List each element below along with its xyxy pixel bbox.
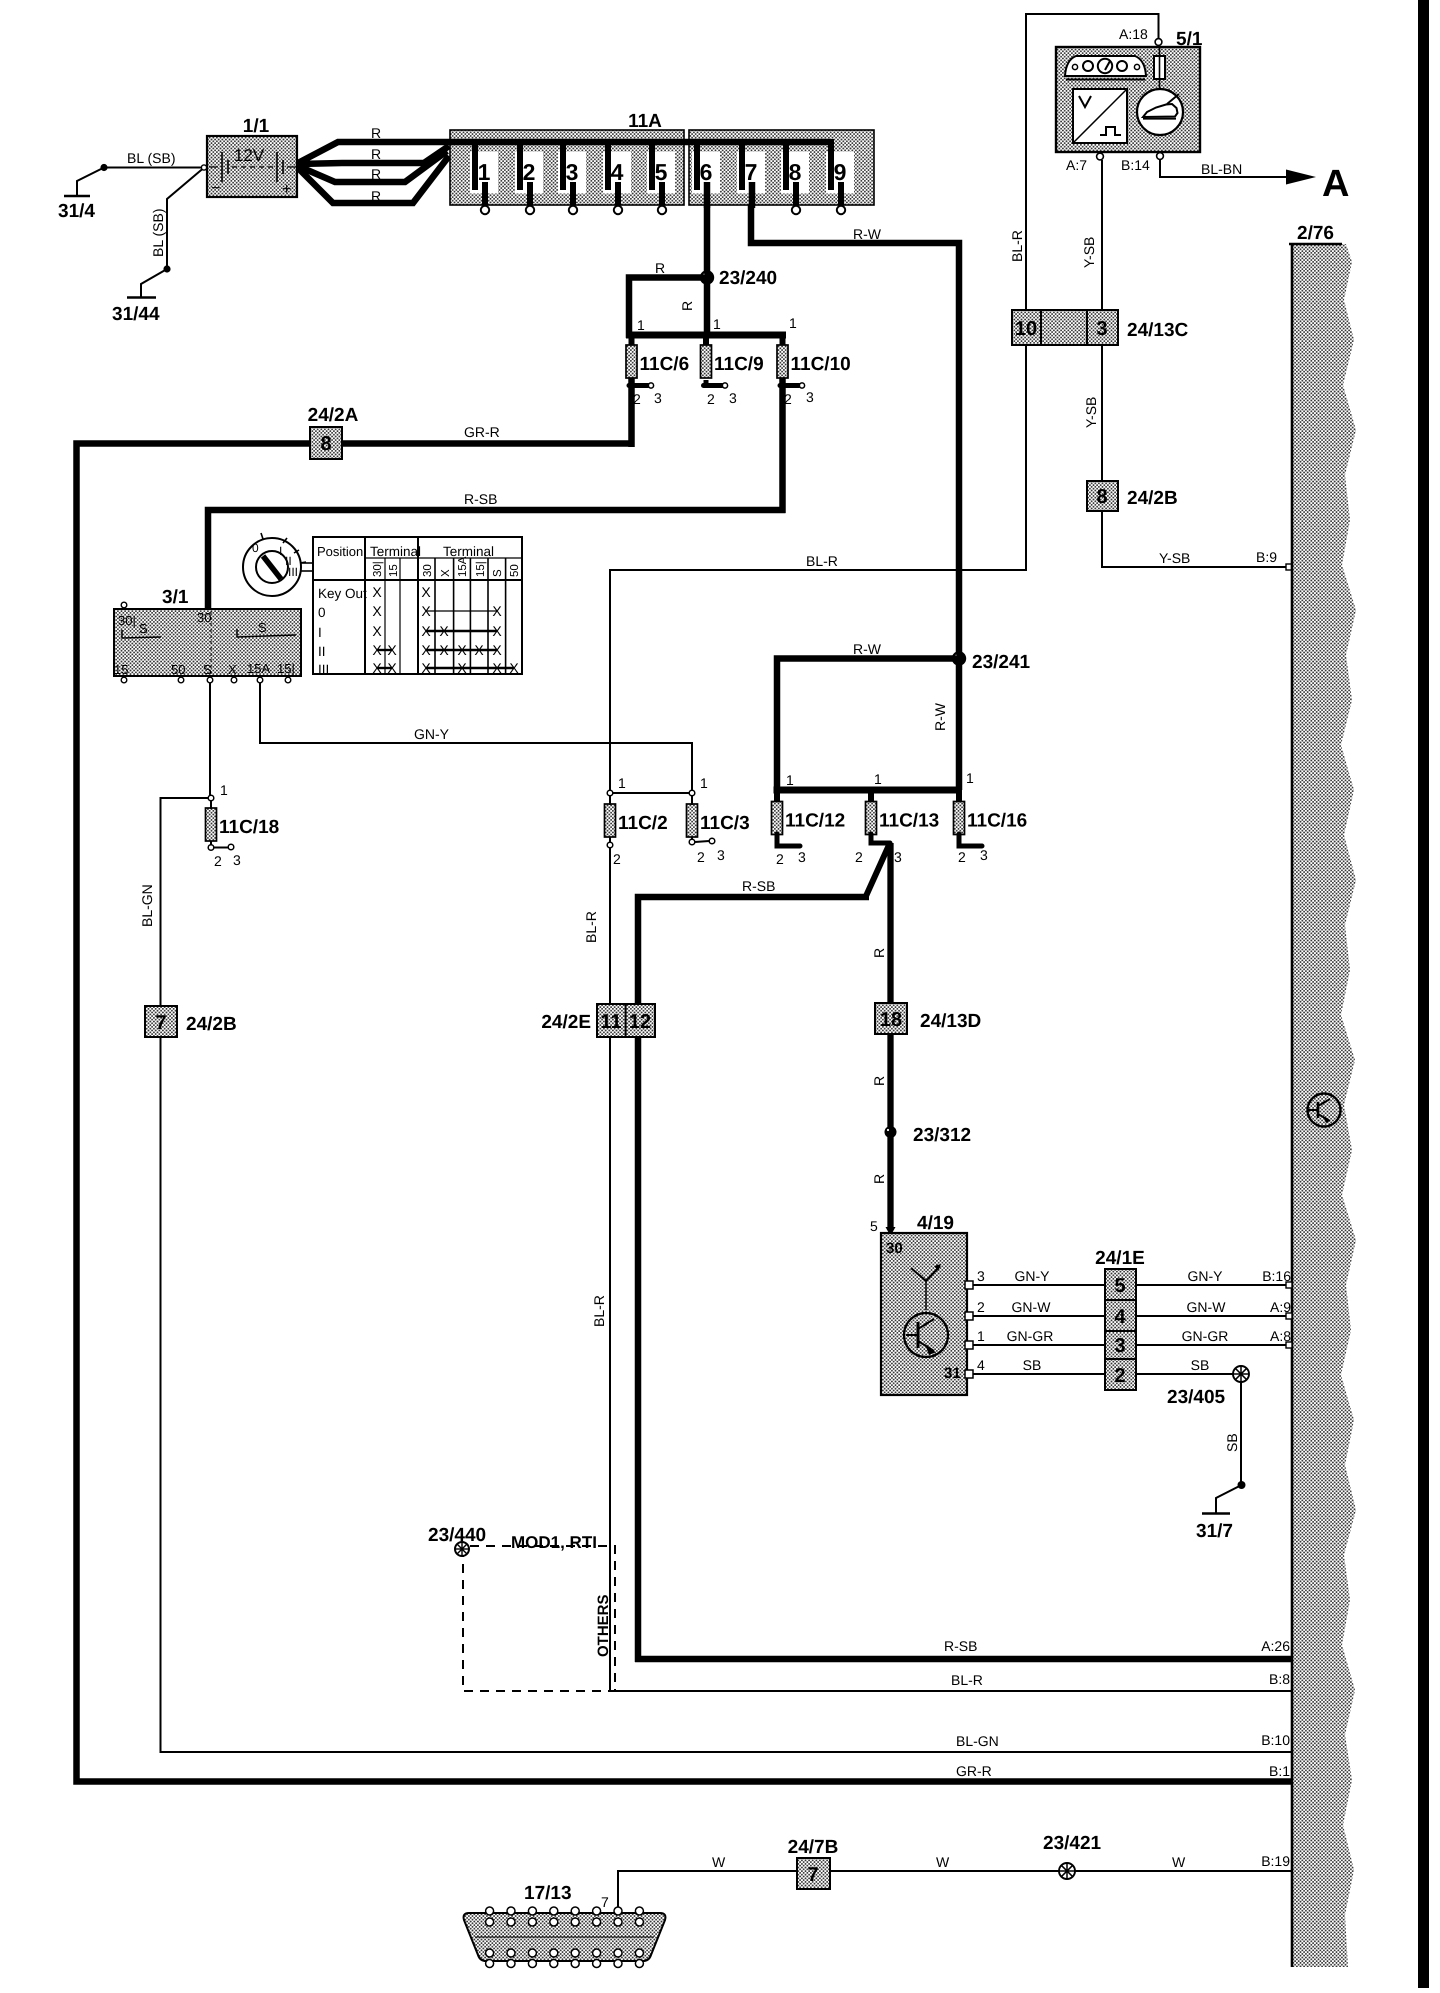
svg-text:A:26: A:26 <box>1261 1638 1290 1654</box>
wire Y-SB from 5/1 A:7 to 24/13C pin 3 <box>1081 160 1102 310</box>
svg-text:X: X <box>474 642 484 658</box>
wire W from 17/13 pin 7 through 24/7B and 23/421 to 2/76 B:19 <box>618 1853 1292 1908</box>
svg-text:3: 3 <box>717 847 725 863</box>
svg-text:X: X <box>492 642 502 658</box>
svg-text:18: 18 <box>880 1009 902 1031</box>
svg-text:2: 2 <box>958 849 966 865</box>
svg-text:31: 31 <box>944 1365 961 1382</box>
svg-text:0: 0 <box>318 605 326 620</box>
connector 24/2E (11 12) <box>541 1004 655 1037</box>
svg-text:3: 3 <box>729 390 737 406</box>
svg-text:11C/16: 11C/16 <box>967 811 1027 832</box>
svg-text:24/13D: 24/13D <box>920 1011 981 1032</box>
battery 1/1 <box>201 116 297 198</box>
svg-text:1: 1 <box>220 782 228 798</box>
svg-text:9: 9 <box>834 159 847 185</box>
svg-text:GN-Y: GN-Y <box>1188 1268 1224 1284</box>
connector 11C/16 <box>954 802 1028 866</box>
svg-text:15A: 15A <box>247 661 270 676</box>
svg-text:R-SB: R-SB <box>742 878 775 894</box>
svg-text:3: 3 <box>980 847 988 863</box>
svg-text:3: 3 <box>233 852 241 868</box>
svg-text:W: W <box>1172 1854 1186 1870</box>
svg-text:1: 1 <box>700 775 708 791</box>
svg-text:1: 1 <box>618 775 626 791</box>
connector 17/13 <box>464 1883 666 1968</box>
wire BL (SB) battery to ground 31/44 <box>141 169 203 298</box>
svg-text:23/440: 23/440 <box>428 1525 486 1546</box>
svg-text:A: A <box>1322 163 1349 205</box>
svg-text:12V: 12V <box>234 146 265 165</box>
svg-text:4: 4 <box>1114 1306 1126 1328</box>
svg-text:1: 1 <box>713 316 721 332</box>
svg-text:R: R <box>871 1076 887 1086</box>
svg-text:5: 5 <box>870 1218 878 1234</box>
svg-text:11C/6: 11C/6 <box>640 354 690 375</box>
svg-text:1: 1 <box>874 771 882 787</box>
connector 24/2B (7) <box>145 1006 237 1037</box>
svg-text:11C/9: 11C/9 <box>714 354 764 375</box>
fuse 5 (11A) <box>647 139 675 214</box>
svg-text:50: 50 <box>509 564 521 577</box>
connector 11C/2 <box>605 775 668 867</box>
wire R-W from 23/241 down to 11C/16 pin 1 <box>932 662 959 790</box>
splice 23/421 <box>1043 1833 1102 1879</box>
svg-text:11C/18: 11C/18 <box>219 817 279 838</box>
svg-text:X: X <box>372 642 382 658</box>
svg-text:GN-GR: GN-GR <box>1182 1328 1229 1344</box>
ground 31/4 <box>58 196 95 222</box>
control module 4/19 <box>881 1213 973 1395</box>
svg-text:Position: Position <box>317 544 363 559</box>
svg-text:30: 30 <box>422 564 434 577</box>
svg-text:2: 2 <box>633 391 641 407</box>
svg-text:23/312: 23/312 <box>913 1125 971 1146</box>
svg-text:S: S <box>139 621 148 636</box>
svg-text:Key Out: Key Out <box>318 586 367 601</box>
svg-text:1: 1 <box>966 770 974 786</box>
svg-text:S: S <box>258 620 267 635</box>
svg-text:3: 3 <box>654 390 662 406</box>
svg-text:B:9: B:9 <box>1256 549 1277 565</box>
svg-text:X: X <box>421 603 431 619</box>
wire R from 23/240 to 11C/6 pin 1 <box>629 260 710 338</box>
svg-text:B:8: B:8 <box>1269 1671 1290 1687</box>
svg-text:30|: 30| <box>118 613 136 628</box>
splice 23/241 <box>952 651 1031 673</box>
svg-text:X: X <box>372 660 382 676</box>
wire Y-SB from 24/13C to 24/2B <box>1083 345 1102 481</box>
component 5/1 trip computer <box>1056 26 1203 173</box>
svg-text:BL-GN: BL-GN <box>139 884 155 927</box>
svg-text:1: 1 <box>478 159 491 185</box>
svg-text:2/76: 2/76 <box>1297 223 1334 244</box>
svg-text:8: 8 <box>789 159 802 185</box>
svg-text:X: X <box>372 623 382 639</box>
ignition switch 3/1 <box>114 587 301 683</box>
svg-text:11C/10: 11C/10 <box>791 354 851 375</box>
svg-text:11C/12: 11C/12 <box>785 811 845 832</box>
svg-text:GN-Y: GN-Y <box>414 726 450 742</box>
wire Y-SB from 24/2B to 2/76 B:9 <box>1102 511 1292 570</box>
svg-text:1/1: 1/1 <box>243 116 270 137</box>
svg-text:I: I <box>318 625 322 640</box>
svg-text:8: 8 <box>1096 486 1107 508</box>
fuse box 11A <box>447 111 874 205</box>
svg-text:B:14: B:14 <box>1121 157 1150 173</box>
svg-text:BL (SB): BL (SB) <box>127 150 176 166</box>
wire BL-GN from 11C/18 pin 1 through 24/2B pin 7 to 2/76 B:10 <box>139 798 1292 1752</box>
ground 31/7 <box>1196 1514 1233 1543</box>
svg-text:MOD1, RTI: MOD1, RTI <box>511 1533 597 1552</box>
svg-text:GN-W: GN-W <box>1187 1299 1227 1315</box>
svg-text:Terminal: Terminal <box>370 544 421 559</box>
svg-text:W: W <box>712 1854 726 1870</box>
connector 11C/9 <box>701 345 764 407</box>
svg-text:A:18: A:18 <box>1119 26 1148 42</box>
svg-text:−: − <box>211 180 220 197</box>
svg-text:R-SB: R-SB <box>464 491 497 507</box>
svg-text:Y-SB: Y-SB <box>1081 237 1097 268</box>
symbol (transistor) on 2/76 bar <box>1308 1094 1341 1127</box>
svg-text:GN-GR: GN-GR <box>1007 1328 1054 1344</box>
svg-text:24/2A: 24/2A <box>308 405 359 426</box>
svg-text:X: X <box>439 623 449 639</box>
svg-text:A:7: A:7 <box>1066 157 1087 173</box>
svg-text:3: 3 <box>806 389 814 405</box>
fuse 2 (11A) <box>515 139 543 214</box>
fuse 8 (11A) <box>781 139 809 214</box>
svg-text:30: 30 <box>197 610 211 625</box>
wire BL-R from 5/1 A:18 to 24/13C pin 10 <box>1009 14 1159 310</box>
svg-text:X: X <box>439 642 449 658</box>
svg-text:Y-SB: Y-SB <box>1159 550 1190 566</box>
connector 24/7B (7) <box>788 1837 839 1889</box>
svg-text:GN-W: GN-W <box>1012 1299 1052 1315</box>
svg-text:2: 2 <box>1114 1365 1125 1387</box>
svg-text:2: 2 <box>707 391 715 407</box>
wire SB from 23/405 to ground 31/7 <box>1216 1382 1246 1513</box>
svg-text:B:19: B:19 <box>1261 1853 1290 1869</box>
splice 23/240 <box>700 268 777 289</box>
connector 24/13D (18) <box>875 1003 981 1034</box>
svg-text:2: 2 <box>855 849 863 865</box>
svg-text:III: III <box>288 565 298 579</box>
svg-text:2: 2 <box>523 159 536 185</box>
svg-text:II: II <box>318 644 326 659</box>
wire GR-R from 11C/6 pin 2 through 24/2A to 2/76 B:1 <box>77 377 1293 1782</box>
svg-text:SB: SB <box>1023 1357 1042 1373</box>
svg-text:3/1: 3/1 <box>162 587 189 608</box>
svg-text:+: + <box>282 181 291 198</box>
svg-text:4: 4 <box>611 159 624 185</box>
svg-text:6: 6 <box>700 159 713 185</box>
dashed box OTHERS <box>463 1546 615 1691</box>
svg-text:31/4: 31/4 <box>58 201 95 222</box>
svg-text:X: X <box>387 642 397 658</box>
svg-text:BL-R: BL-R <box>951 1672 983 1688</box>
svg-text:2: 2 <box>776 851 784 867</box>
connector 11C/18 <box>206 782 280 869</box>
svg-text:BL-R: BL-R <box>1009 230 1025 262</box>
svg-text:X: X <box>372 603 382 619</box>
wire BL-R from 24/13C pin 10 to 11C/2 pin 1 <box>610 345 1026 791</box>
svg-text:11C/13: 11C/13 <box>879 811 939 832</box>
svg-text:24/1E: 24/1E <box>1095 1248 1145 1269</box>
wire R-SB from 11C/13 pin 3 to 24/2E pin 12 and on to 2/76 A:26 <box>635 845 1292 1662</box>
wire GN-Y from 3/1 terminal 15A to 11C/3 pin 1 <box>260 681 692 791</box>
connector 24/1E (5 4 3 2) <box>1095 1248 1145 1390</box>
svg-text:1: 1 <box>786 772 794 788</box>
svg-text:I: I <box>279 544 282 558</box>
svg-text:4/19: 4/19 <box>917 1213 954 1234</box>
svg-text:23/405: 23/405 <box>1167 1387 1226 1408</box>
fuse 3 (11A) <box>558 139 586 214</box>
svg-text:24/2E: 24/2E <box>541 1012 591 1033</box>
svg-text:R: R <box>871 1174 887 1184</box>
svg-text:24/2B: 24/2B <box>186 1014 237 1035</box>
svg-text:4: 4 <box>977 1357 985 1373</box>
svg-text:Y-SB: Y-SB <box>1083 397 1099 428</box>
wire R from 11C/13 pin 3 to 4/19 pin 5 <box>870 843 896 1236</box>
wire GN-W from 4/19 pin 2 through 24/1E pin 4 to 2/76 A:9 <box>973 1299 1292 1319</box>
svg-text:X: X <box>228 662 237 677</box>
wire R battery feed 2 <box>298 146 449 164</box>
svg-text:24/2B: 24/2B <box>1127 488 1178 509</box>
svg-text:17/13: 17/13 <box>524 1883 572 1904</box>
wire R from fuse 6 to splice 23/240 and 11C/9 pin 1 <box>679 205 707 338</box>
svg-text:24/7B: 24/7B <box>788 1837 839 1858</box>
svg-text:7: 7 <box>807 1864 818 1886</box>
ground 31/44 <box>112 298 160 326</box>
svg-text:R: R <box>371 125 381 141</box>
svg-text:7: 7 <box>745 159 758 185</box>
svg-text:GN-Y: GN-Y <box>1015 1268 1051 1284</box>
fuse 6 (11A) <box>692 139 720 208</box>
svg-text:OTHERS: OTHERS <box>595 1594 612 1657</box>
ECU module 2/76 (connector bar) <box>1289 223 1356 1967</box>
svg-text:B:10: B:10 <box>1261 1732 1290 1748</box>
fuse 9 (11A) <box>826 139 854 214</box>
svg-text:11A: 11A <box>628 111 662 132</box>
svg-text:3: 3 <box>1114 1335 1125 1357</box>
wire pin-1 jumper 11C/2 to 11C/3 <box>610 792 692 794</box>
svg-text:3: 3 <box>894 849 902 865</box>
svg-text:11C/3: 11C/3 <box>700 813 750 834</box>
svg-text:BL-BN: BL-BN <box>1201 161 1242 177</box>
wire R-W from 23/241 to 11C/12 pin 1 <box>777 641 962 790</box>
svg-text:15|: 15| <box>475 561 487 577</box>
fuse 7 (11A) <box>737 139 765 208</box>
connector 11C/6 <box>626 345 689 407</box>
svg-text:15: 15 <box>114 662 128 677</box>
svg-text:X: X <box>372 584 382 600</box>
svg-text:7: 7 <box>155 1012 166 1034</box>
wire R-SB from 11C/10 pin 2 to ignition switch 3/1 terminal 30 <box>208 377 786 610</box>
connector 24/2A (8) <box>308 405 359 459</box>
svg-text:23/240: 23/240 <box>719 268 777 289</box>
svg-text:R: R <box>371 188 381 204</box>
fuse 1 (11A) <box>470 139 498 214</box>
connector 11C/10 <box>777 345 851 407</box>
svg-text:S: S <box>492 569 504 577</box>
page border right <box>1418 0 1429 1988</box>
svg-text:R-W: R-W <box>853 226 882 242</box>
svg-text:2: 2 <box>697 849 705 865</box>
svg-text:3: 3 <box>1096 318 1107 340</box>
svg-text:X: X <box>440 569 452 577</box>
svg-text:W: W <box>936 1854 950 1870</box>
svg-text:R-SB: R-SB <box>944 1638 977 1654</box>
svg-text:S: S <box>203 662 212 677</box>
svg-text:5: 5 <box>655 159 668 185</box>
svg-text:R: R <box>371 166 381 182</box>
svg-text:12: 12 <box>629 1011 651 1033</box>
svg-text:5: 5 <box>1114 1275 1125 1297</box>
connector 11C/12 <box>772 802 846 868</box>
svg-text:BL-GN: BL-GN <box>956 1733 999 1749</box>
svg-text:X: X <box>387 660 397 676</box>
svg-text:SB: SB <box>1224 1433 1240 1452</box>
svg-text:R: R <box>655 260 665 276</box>
svg-text:2: 2 <box>784 391 792 407</box>
splice 23/440 <box>428 1525 486 1556</box>
wire GN-Y from 4/19 pin 3 through 24/1E pin 5 to 2/76 B:16 <box>973 1268 1292 1288</box>
svg-text:31/7: 31/7 <box>1196 1521 1233 1542</box>
splice 23/312 <box>885 1125 972 1146</box>
connector 11C/3 <box>687 775 750 865</box>
svg-text:2: 2 <box>214 853 222 869</box>
svg-text:X: X <box>457 642 467 658</box>
svg-text:7: 7 <box>601 1894 609 1910</box>
wire BL (SB) battery to ground 31/4 <box>77 150 203 196</box>
svg-text:GR-R: GR-R <box>956 1763 992 1779</box>
svg-text:X: X <box>492 603 502 619</box>
label MOD1, RTI <box>511 1533 597 1552</box>
svg-text:15|: 15| <box>277 661 295 676</box>
key position symbol for 3/1 <box>243 533 313 596</box>
connector 11C/13 <box>855 802 939 866</box>
svg-text:R: R <box>371 146 381 162</box>
svg-text:III: III <box>318 662 329 677</box>
svg-text:3: 3 <box>977 1268 985 1284</box>
svg-text:8: 8 <box>320 433 331 455</box>
wire GN-GR from 4/19 pin 1 through 24/1E pin 3 to 2/76 A:8 <box>973 1328 1292 1348</box>
svg-text:BL-R: BL-R <box>806 553 838 569</box>
svg-text:GR-R: GR-R <box>464 424 500 440</box>
svg-text:1: 1 <box>977 1328 985 1344</box>
svg-text:50: 50 <box>171 662 185 677</box>
svg-text:X: X <box>492 623 502 639</box>
wire pin-1 bus 11C/6 11C/9 11C/10 <box>626 315 797 347</box>
svg-text:X: X <box>457 660 467 676</box>
wire R battery feed 1 <box>298 125 447 163</box>
wire R-W from fuse 7 to splice 23/241 <box>751 205 959 655</box>
svg-text:X: X <box>421 660 431 676</box>
wire BL-BN from 5/1 B:14 to arrow A <box>1160 159 1316 185</box>
svg-text:3: 3 <box>566 159 579 185</box>
wire BL-R from 11C/2 pin 2 through 24/2E pin 11 to 2/76 B:8 <box>583 848 1292 1691</box>
wire Y from 3/1 terminal S to 11C/18 pin 1 <box>189 635 210 796</box>
svg-text:BL-R: BL-R <box>583 911 599 943</box>
switch position table for 3/1 <box>313 537 522 677</box>
svg-text:BL-R: BL-R <box>591 1295 607 1327</box>
svg-text:30|: 30| <box>372 561 384 577</box>
wire pin-1 bus 11C/12 11C/13 11C/16 <box>774 770 975 803</box>
svg-text:X: X <box>421 642 431 658</box>
svg-text:15A: 15A <box>457 556 469 577</box>
svg-text:1: 1 <box>789 315 797 331</box>
svg-text:15: 15 <box>388 564 400 577</box>
connector 24/13C <box>1012 310 1189 345</box>
wire R battery feed 3 <box>298 151 447 182</box>
svg-text:X: X <box>421 623 431 639</box>
svg-text:2: 2 <box>977 1299 985 1315</box>
svg-text:5/1: 5/1 <box>1176 29 1203 50</box>
wire R battery feed 4 <box>298 156 449 204</box>
svg-text:1: 1 <box>637 317 645 333</box>
arrow label A <box>1322 163 1349 205</box>
svg-text:R-W: R-W <box>932 702 948 731</box>
svg-text:23/241: 23/241 <box>972 652 1031 673</box>
svg-text:10: 10 <box>1015 318 1037 340</box>
svg-text:30: 30 <box>886 1240 903 1257</box>
svg-text:B:1: B:1 <box>1269 1763 1290 1779</box>
svg-text:X: X <box>509 660 519 676</box>
svg-text:3: 3 <box>798 849 806 865</box>
svg-text:X: X <box>492 660 502 676</box>
svg-text:0: 0 <box>252 541 259 555</box>
connector 24/2B (8) <box>1087 481 1178 511</box>
svg-text:11: 11 <box>600 1011 621 1033</box>
svg-text:X: X <box>421 584 431 600</box>
svg-text:24/13C: 24/13C <box>1127 320 1189 341</box>
fuse 4 (11A) <box>603 139 631 214</box>
svg-text:2: 2 <box>613 851 621 867</box>
svg-text:31/44: 31/44 <box>112 304 160 325</box>
splice 23/405 <box>1167 1366 1249 1408</box>
svg-text:BL (SB): BL (SB) <box>150 209 166 258</box>
svg-text:11C/2: 11C/2 <box>618 813 668 834</box>
wire SB from 4/19 pin 4 through 24/1E pin 2 to splice 23/405 <box>973 1357 1233 1374</box>
svg-text:R: R <box>679 301 695 311</box>
svg-text:R: R <box>871 948 887 958</box>
svg-text:R-W: R-W <box>853 641 882 657</box>
svg-text:SB: SB <box>1191 1357 1210 1373</box>
svg-text:23/421: 23/421 <box>1043 1833 1102 1854</box>
